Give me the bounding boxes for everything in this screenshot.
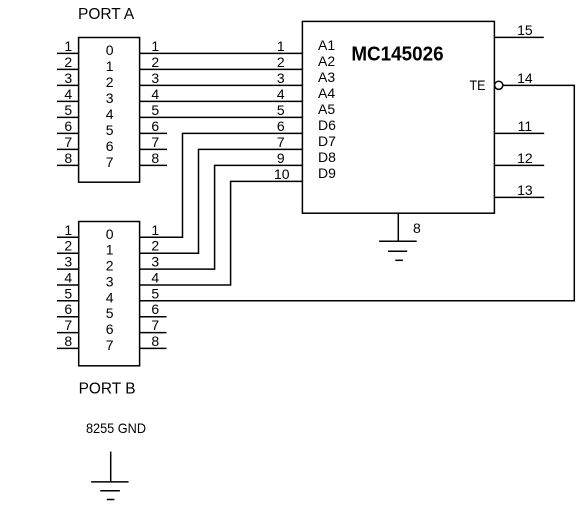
wire MC145026 D7 pin 7 to PORT B pin 2 xyxy=(140,149,303,253)
svg-text:4: 4 xyxy=(64,270,72,286)
svg-text:8: 8 xyxy=(151,150,159,166)
svg-text:1: 1 xyxy=(64,38,72,54)
svg-text:8: 8 xyxy=(413,220,421,236)
PORT B right pin 6 stub wire xyxy=(140,316,167,318)
svg-text:1: 1 xyxy=(277,38,285,54)
svg-text:7: 7 xyxy=(277,134,285,150)
svg-text:2: 2 xyxy=(106,74,114,90)
PORT A left pin 4 wire xyxy=(57,100,79,102)
IC U1 MC145026 box xyxy=(302,21,494,213)
svg-text:4: 4 xyxy=(277,86,285,102)
ground symbol at MC145026 pin 8 xyxy=(379,241,417,260)
svg-text:A2: A2 xyxy=(318,53,335,69)
svg-text:D9: D9 xyxy=(318,165,336,181)
PORT A right pin 7 stub wire xyxy=(140,148,167,150)
svg-text:1: 1 xyxy=(106,58,114,74)
svg-text:7: 7 xyxy=(151,134,159,150)
wire PORT A pin 1 to MC145026 A1 xyxy=(140,52,303,54)
svg-text:3: 3 xyxy=(106,273,114,289)
MC145026 input pin labels A1-A5 D6-D9 xyxy=(318,37,336,181)
svg-text:3: 3 xyxy=(151,70,159,86)
MC145026 right pin 11 wire xyxy=(494,132,544,134)
PORT A left pin 7 wire xyxy=(57,148,79,150)
MC145026 right pin 12 wire xyxy=(494,164,544,166)
wire MC145026 D9 pin 10 to PORT B pin 4 xyxy=(140,181,303,285)
svg-text:1: 1 xyxy=(106,242,114,258)
PORT B left pin 7 wire xyxy=(57,332,79,334)
PORT B right pin 8 stub wire xyxy=(140,347,167,349)
svg-text:2: 2 xyxy=(151,54,159,70)
PORT B inner bit labels 0-7 xyxy=(106,226,114,353)
svg-text:10: 10 xyxy=(274,166,290,182)
svg-text:6: 6 xyxy=(64,301,72,317)
svg-text:3: 3 xyxy=(277,70,285,86)
PORT B left pin 8 wire xyxy=(57,347,79,349)
IC PORT B box xyxy=(79,222,140,366)
svg-text:15: 15 xyxy=(517,22,533,38)
PORT A left pin 3 wire xyxy=(57,84,79,86)
svg-text:0: 0 xyxy=(106,42,114,58)
svg-text:A1: A1 xyxy=(318,37,335,53)
IC PORT A box xyxy=(79,38,140,183)
svg-text:3: 3 xyxy=(151,254,159,270)
svg-text:2: 2 xyxy=(277,54,285,70)
svg-text:A4: A4 xyxy=(318,85,335,101)
svg-text:2: 2 xyxy=(64,238,72,254)
svg-text:7: 7 xyxy=(151,317,159,333)
svg-text:14: 14 xyxy=(517,70,533,86)
MC145026 right pin 15 wire xyxy=(494,36,543,38)
svg-text:2: 2 xyxy=(106,258,114,274)
svg-text:12: 12 xyxy=(517,150,533,166)
svg-text:5: 5 xyxy=(277,102,285,118)
PORT A left pin 1 wire xyxy=(57,52,79,54)
svg-text:TE: TE xyxy=(470,77,486,93)
wire PORT A pin 2 to MC145026 A2 xyxy=(140,68,303,70)
svg-text:3: 3 xyxy=(64,70,72,86)
svg-text:6: 6 xyxy=(106,138,114,154)
svg-text:1: 1 xyxy=(64,222,72,238)
MC145026 left pin numbers 1-7,9,10 xyxy=(274,38,290,182)
svg-text:4: 4 xyxy=(151,86,159,102)
PORT A left pin 6 wire xyxy=(57,132,79,134)
PORT A right pin 6 stub wire xyxy=(140,132,167,134)
svg-text:D7: D7 xyxy=(318,133,336,149)
MC145026 right pin numbers 15,14,11,12,13 xyxy=(517,22,533,198)
svg-text:A5: A5 xyxy=(318,101,335,117)
wire PORT A pin 4 to MC145026 A4 xyxy=(140,100,303,102)
PORT B right pin 7 stub wire xyxy=(140,332,167,334)
PORT B left pin 1 wire xyxy=(57,236,79,238)
svg-text:13: 13 xyxy=(517,182,533,198)
svg-text:A3: A3 xyxy=(318,69,335,85)
wire PORT A pin 5 to MC145026 A5 xyxy=(140,116,303,118)
svg-text:D8: D8 xyxy=(318,149,336,165)
svg-text:2: 2 xyxy=(151,238,159,254)
PORT A inner bit labels 0-7 xyxy=(106,42,114,170)
ground symbol 8255 GND xyxy=(91,482,129,500)
svg-text:PORT B: PORT B xyxy=(79,381,136,398)
PORT B left pin 2 wire xyxy=(57,252,79,254)
PORT B left pin 4 wire xyxy=(57,284,79,286)
svg-text:PORT A: PORT A xyxy=(78,6,135,23)
svg-text:9: 9 xyxy=(277,150,285,166)
svg-text:6: 6 xyxy=(106,321,114,337)
PORT A right pin numbers 1-8 xyxy=(151,38,159,166)
svg-text:8255 GND: 8255 GND xyxy=(86,420,146,436)
svg-text:8: 8 xyxy=(151,333,159,349)
PORT B left pin 3 wire xyxy=(57,268,79,270)
PORT B left pin 6 wire xyxy=(57,316,79,318)
svg-text:3: 3 xyxy=(106,90,114,106)
svg-text:6: 6 xyxy=(151,118,159,134)
svg-text:5: 5 xyxy=(64,285,72,301)
MC145026 right pin 13 wire xyxy=(494,196,544,198)
svg-text:4: 4 xyxy=(106,106,114,122)
svg-text:6: 6 xyxy=(64,118,72,134)
svg-text:7: 7 xyxy=(106,337,114,353)
svg-text:0: 0 xyxy=(106,226,114,242)
svg-text:5: 5 xyxy=(106,305,114,321)
PORT A right pin 8 stub wire xyxy=(140,164,167,166)
svg-text:2: 2 xyxy=(64,54,72,70)
PORT B right pin numbers 1-8 xyxy=(151,222,159,349)
svg-text:4: 4 xyxy=(106,289,114,305)
svg-text:6: 6 xyxy=(277,118,285,134)
wire PORT A pin 3 to MC145026 A3 xyxy=(140,84,303,86)
svg-text:1: 1 xyxy=(151,222,159,238)
svg-text:7: 7 xyxy=(64,134,72,150)
svg-text:11: 11 xyxy=(518,118,533,134)
svg-text:5: 5 xyxy=(64,102,72,118)
svg-text:7: 7 xyxy=(64,317,72,333)
PORT A left pin 8 wire xyxy=(57,164,79,166)
wire MC145026 D6 pin 6 to PORT B pin 1 xyxy=(140,133,303,237)
wire MC145026 D8 pin 9 to PORT B pin 3 xyxy=(140,165,303,269)
PORT A left pin numbers 1-8 xyxy=(64,38,72,166)
TE inverter bubble xyxy=(495,81,503,89)
svg-text:6: 6 xyxy=(151,301,159,317)
svg-text:7: 7 xyxy=(106,154,114,170)
PORT A left pin 5 wire xyxy=(57,116,79,118)
svg-text:5: 5 xyxy=(151,102,159,118)
MC145026 pin 8 ground lead xyxy=(397,213,399,241)
PORT B left pin 5 wire xyxy=(57,300,79,302)
svg-text:5: 5 xyxy=(151,285,159,301)
svg-text:D6: D6 xyxy=(318,117,336,133)
svg-text:5: 5 xyxy=(106,122,114,138)
svg-text:8: 8 xyxy=(64,333,72,349)
svg-text:1: 1 xyxy=(151,38,159,54)
8255 ground lead xyxy=(110,452,112,482)
PORT A left pin 2 wire xyxy=(57,68,79,70)
svg-text:4: 4 xyxy=(151,270,159,286)
wire TE pin 14 to PORT B pin 5 xyxy=(140,85,575,300)
svg-text:8: 8 xyxy=(64,150,72,166)
svg-text:4: 4 xyxy=(64,86,72,102)
PORT B left pin numbers 1-8 xyxy=(64,222,72,349)
svg-text:3: 3 xyxy=(64,254,72,270)
svg-text:MC145026: MC145026 xyxy=(351,44,443,66)
